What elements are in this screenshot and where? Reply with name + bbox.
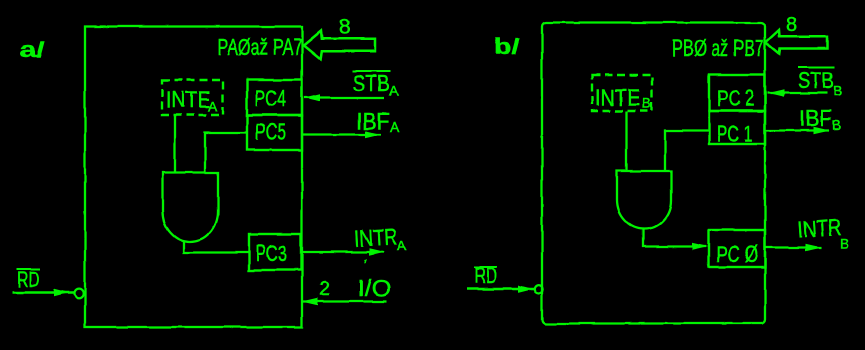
svg-text:b/: b/	[494, 36, 520, 59]
svg-text:RD: RD	[475, 263, 498, 288]
svg-text:PC4: PC4	[255, 85, 286, 111]
svg-text:STB: STB	[353, 70, 390, 96]
svg-text:A: A	[390, 119, 400, 135]
svg-text:I/O: I/O	[358, 275, 391, 301]
svg-text:PC Ø: PC Ø	[716, 241, 758, 267]
svg-text:IBF: IBF	[356, 108, 390, 134]
svg-text:a/: a/	[20, 39, 45, 62]
svg-text:A: A	[397, 237, 407, 253]
svg-text:INTE: INTE	[595, 85, 640, 111]
svg-text:B: B	[833, 82, 842, 98]
svg-text:STB: STB	[798, 67, 834, 93]
svg-text:2: 2	[319, 278, 330, 300]
svg-text:PC3: PC3	[256, 240, 287, 266]
svg-text:8: 8	[786, 14, 797, 36]
svg-text:INTE: INTE	[166, 87, 210, 113]
svg-text:B: B	[832, 117, 841, 133]
svg-text:RD: RD	[17, 267, 40, 292]
svg-text:PC 2: PC 2	[717, 85, 754, 111]
svg-text:A: A	[389, 83, 399, 99]
svg-text:PBØ až PB7: PBØ až PB7	[672, 35, 764, 61]
svg-text:A: A	[208, 98, 218, 114]
svg-text:ʼ: ʼ	[364, 258, 368, 275]
svg-text:PC 1: PC 1	[717, 121, 753, 147]
svg-text:IBF: IBF	[799, 105, 832, 131]
svg-text:B: B	[642, 95, 651, 111]
svg-text:INTR: INTR	[797, 213, 843, 242]
svg-text:INTR: INTR	[354, 223, 398, 251]
svg-text:B: B	[840, 235, 849, 251]
svg-text:PC5: PC5	[255, 119, 286, 145]
svg-text:8: 8	[339, 16, 351, 39]
svg-text:PAØaž PA7: PAØaž PA7	[218, 34, 302, 60]
